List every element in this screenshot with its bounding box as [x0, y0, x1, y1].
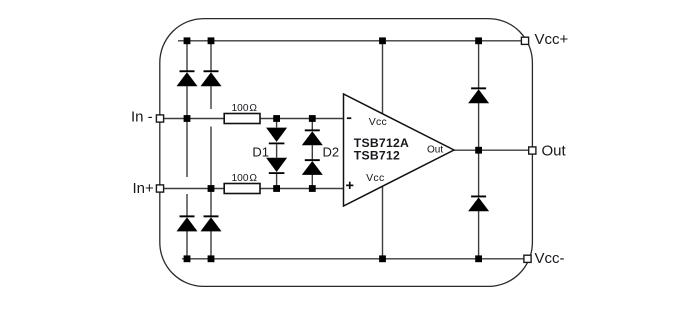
- junction In- / D1: [273, 115, 280, 122]
- svg-text:D2: D2: [323, 145, 340, 160]
- wire In- input line: [160, 118, 344, 120]
- wire right column In+ to bottom diode: [210, 189, 212, 216]
- resistor R2 100 Ohm (In+): [224, 184, 260, 194]
- junction top rail / op-amp supply stub: [379, 37, 386, 44]
- wire D1 column lower segment: [276, 174, 278, 189]
- wire right column below gap to In+: [210, 127, 212, 189]
- svg-text:In+: In+: [133, 180, 155, 197]
- junction In+ / D2: [309, 185, 316, 192]
- svg-text:100 Ω: 100 Ω: [232, 103, 258, 114]
- wire right column segment Vcc+ to diode: [210, 41, 212, 71]
- wire output clamp rail lower segment: [478, 211, 480, 259]
- wire right column bottom diode to Vcc- rail: [210, 231, 212, 259]
- wire left column below gap to bottom diode: [186, 194, 188, 216]
- junction In+ / D1: [273, 185, 280, 192]
- resistor R1 100 Ohm (In-): [224, 114, 260, 124]
- IC package boundary U1 outline: [160, 19, 533, 287]
- diode bottom-right ESD Vcc- to In+: [201, 215, 222, 231]
- diode D2 upper (pointing up): [302, 129, 323, 145]
- diode top-left ESD In- to Vcc+: [177, 70, 198, 86]
- wire Vcc- bottom rail: [182, 258, 528, 260]
- pin Vcc- terminal: [524, 255, 531, 262]
- wire D1 column upper segment: [276, 119, 278, 128]
- svg-text:Vcc: Vcc: [366, 172, 384, 184]
- svg-text:In -: In -: [131, 109, 153, 126]
- pin Out terminal: [529, 147, 536, 154]
- op-amp inverting input marker -: [347, 117, 351, 119]
- wire In+ input line: [160, 188, 344, 190]
- wire output line: [454, 149, 532, 151]
- junction bottom rail / output clamp rail: [475, 255, 482, 262]
- pin In- terminal: [156, 115, 163, 122]
- junction top rail / left column: [184, 37, 191, 44]
- svg-text:Vcc-: Vcc-: [535, 250, 565, 267]
- pin In+ terminal: [156, 185, 163, 192]
- wire output clamp rail upper segment: [478, 41, 480, 88]
- op-amp U1 triangle: [344, 94, 455, 206]
- svg-text:Out: Out: [427, 145, 443, 156]
- diode top-right ESD In+ to Vcc+: [201, 70, 222, 86]
- op-amp non-inverting input marker +: [346, 182, 353, 189]
- junction In- / D2: [309, 115, 316, 122]
- svg-text:TSB712: TSB712: [354, 149, 400, 163]
- wire op-amp positive supply stub from Vcc+ rail: [382, 41, 384, 114]
- svg-text:100 Ω: 100 Ω: [232, 173, 258, 184]
- pin Vcc+ terminal: [521, 37, 528, 44]
- junction In- / left column: [184, 115, 191, 122]
- wire op-amp negative supply stub to Vcc- rail: [382, 186, 384, 259]
- junction output / clamp rail: [475, 147, 482, 154]
- wire left column In- down to crossing gap: [186, 119, 188, 178]
- svg-text:Vcc+: Vcc+: [535, 31, 569, 48]
- svg-text:Vcc: Vcc: [369, 116, 387, 128]
- wire Vcc+ top rail: [178, 40, 525, 42]
- wire right column diode to crossing gap: [210, 86, 212, 109]
- wire left column bottom diode to Vcc- rail: [186, 231, 188, 259]
- wire D2 column middle segment: [311, 145, 313, 159]
- svg-text:Out: Out: [542, 143, 567, 160]
- junction In+ / right column: [208, 185, 215, 192]
- junction top rail / output clamp rail: [475, 37, 482, 44]
- diode output clamp from Vcc-: [468, 196, 489, 212]
- svg-text:D1: D1: [252, 145, 269, 160]
- junction bottom rail / left column: [184, 255, 191, 262]
- junction top rail / right column: [208, 37, 215, 44]
- diode D1 upper (pointing down): [266, 128, 287, 145]
- junction bottom rail / right column: [208, 255, 215, 262]
- diode bottom-left ESD Vcc- to In-: [177, 215, 198, 231]
- wire left column diode to In-: [186, 86, 188, 119]
- wire left column segment Vcc+ to diode: [186, 41, 188, 71]
- wire D2 column lower segment: [311, 175, 313, 189]
- wire output clamp rail middle segment: [478, 103, 480, 196]
- junction bottom rail / op-amp supply stub: [379, 255, 386, 262]
- diode D2 lower (pointing up): [302, 159, 323, 175]
- diode D1 lower (pointing down): [266, 158, 287, 174]
- wire D1 column middle segment: [276, 144, 278, 157]
- diode output clamp to Vcc+: [468, 87, 489, 103]
- wire D2 column upper segment: [311, 119, 313, 130]
